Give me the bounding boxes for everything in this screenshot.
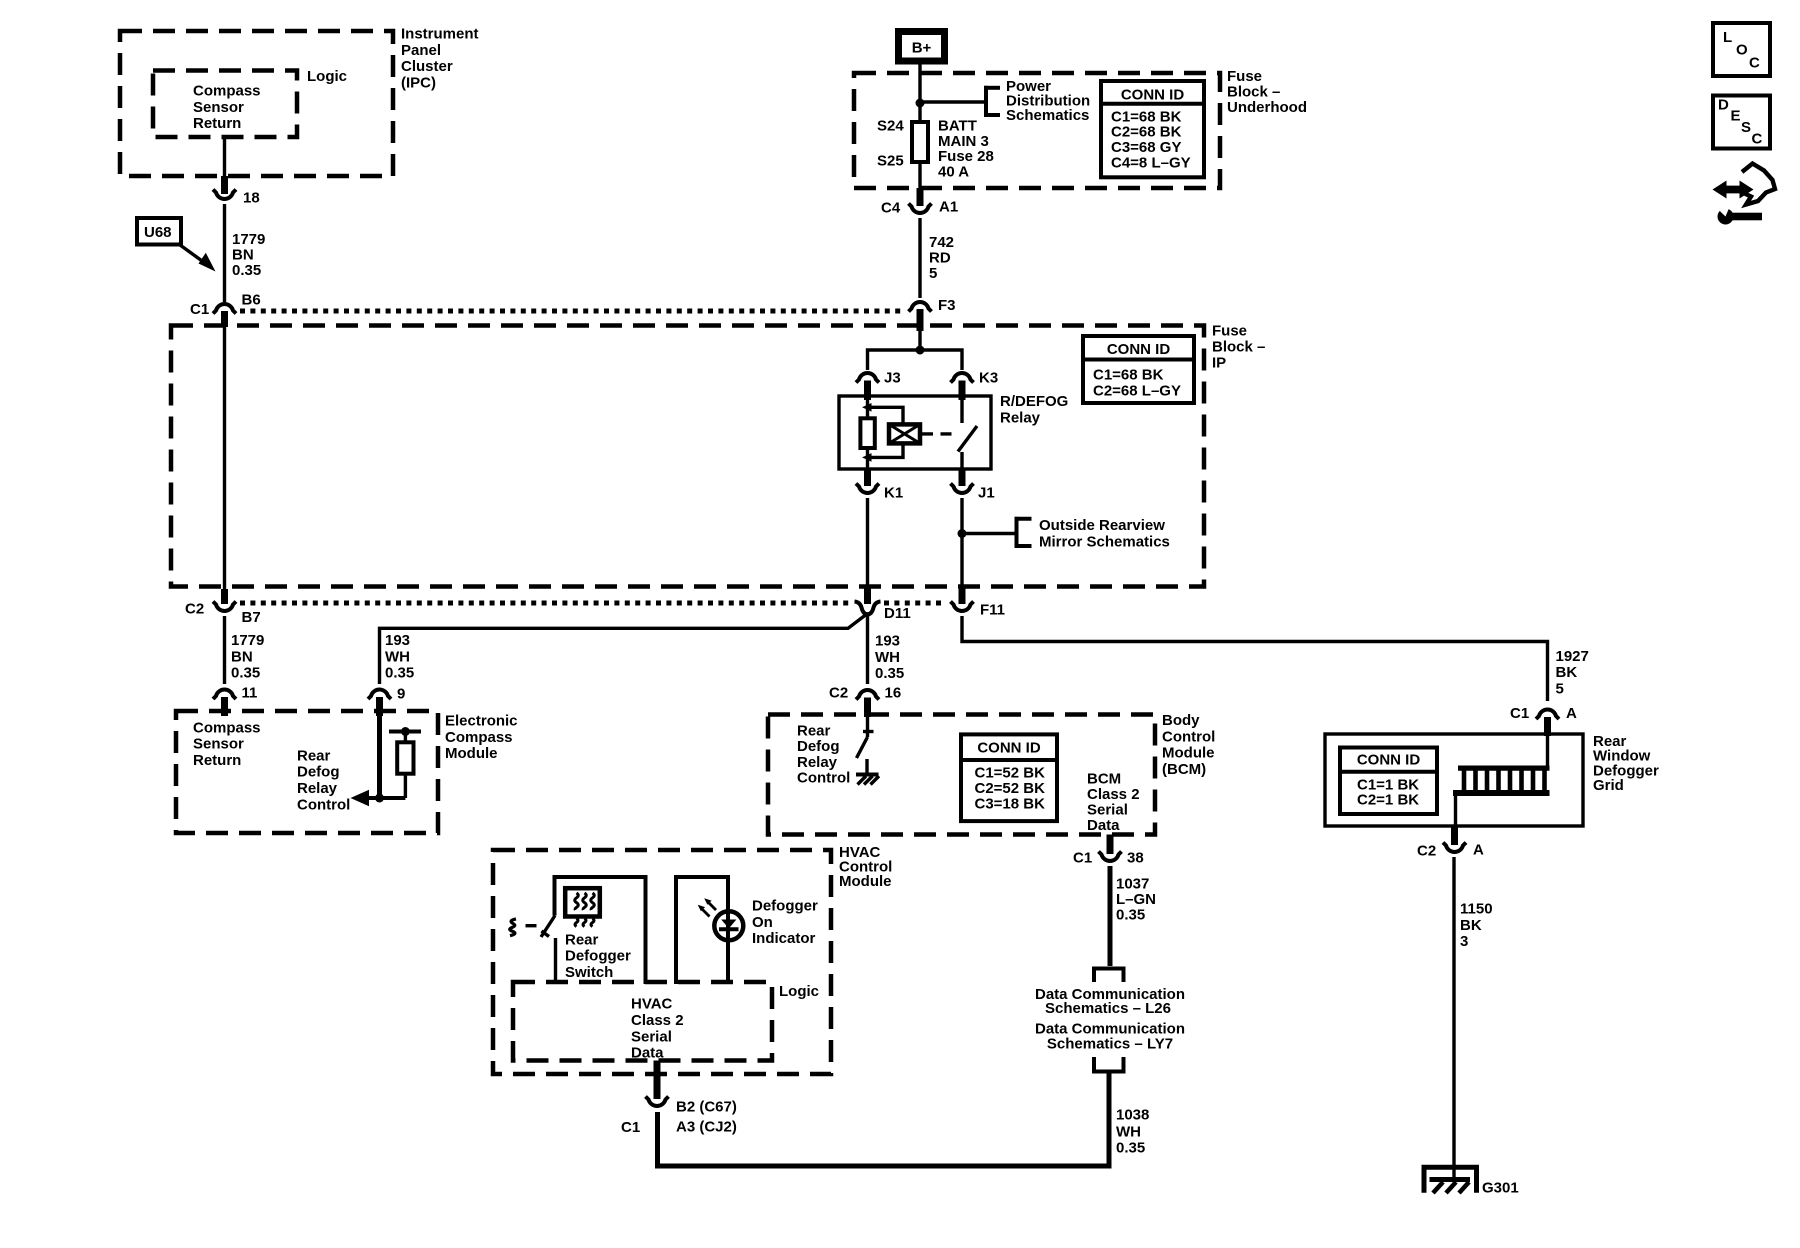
connector C2 A (grid) <box>1443 843 1466 853</box>
svg-text:F3: F3 <box>938 297 956 314</box>
svg-text:0.35: 0.35 <box>232 262 261 279</box>
wire 742 RD 5 <box>918 218 921 298</box>
svg-text:0.35: 0.35 <box>231 665 260 682</box>
svg-text:Schematics – LY7: Schematics – LY7 <box>1047 1035 1173 1052</box>
svg-text:Compass: Compass <box>193 719 261 736</box>
svg-text:0.35: 0.35 <box>385 665 414 682</box>
svg-text:Schematics – L26: Schematics – L26 <box>1045 1000 1171 1017</box>
off-page bracket power distribution <box>984 86 1000 117</box>
svg-text:Class 2: Class 2 <box>1087 786 1140 803</box>
connector C1 A (grid) <box>1536 709 1559 719</box>
svg-text:C1=68 BK: C1=68 BK <box>1093 366 1164 383</box>
stub above C2 B7 <box>221 589 228 604</box>
wire 1150 BK 3 to ground <box>1452 857 1455 1177</box>
wire label 193 WH 0.35 left <box>385 632 414 682</box>
hvac logic box <box>513 982 772 1061</box>
svg-text:Grid: Grid <box>1593 777 1624 794</box>
connector C2 B7 <box>213 602 236 612</box>
svg-text:Control: Control <box>1162 728 1215 745</box>
connector K1 <box>856 484 879 494</box>
switch spring symbol <box>510 919 516 936</box>
label C2 (BCM) <box>829 685 848 702</box>
BCM switch contact tick <box>863 730 874 733</box>
relay coil lower branch wire <box>868 443 904 457</box>
svg-text:BN: BN <box>231 648 253 665</box>
wire label 1927 BK 5 <box>1556 648 1589 698</box>
svg-text:C2=68 L–GY: C2=68 L–GY <box>1093 383 1181 400</box>
connector C1 B6 <box>213 304 236 314</box>
pin label B6 <box>242 292 261 309</box>
wire pin 9 into module <box>377 716 382 798</box>
BCM switch wire <box>866 717 869 737</box>
stub below relay K1 <box>864 469 871 486</box>
pin label J3 <box>884 370 901 387</box>
wire label 1037 L-GN 0.35 <box>1116 876 1156 924</box>
svg-text:Relay: Relay <box>297 780 338 797</box>
svg-text:K1: K1 <box>884 485 903 502</box>
junction to mirror ref <box>958 529 1016 538</box>
svg-text:Panel: Panel <box>401 42 441 59</box>
conn id table BCM <box>961 734 1057 821</box>
label Fuse Block Underhood <box>1227 68 1307 116</box>
svg-text:C1: C1 <box>1073 850 1092 867</box>
svg-text:Class 2: Class 2 <box>631 1012 684 1029</box>
wire label 1150 BK 3 <box>1460 901 1493 951</box>
connector F3 <box>909 302 932 312</box>
svg-text:D11: D11 <box>884 605 911 622</box>
svg-text:Rear: Rear <box>565 931 599 948</box>
svg-text:Return: Return <box>193 752 241 769</box>
svg-text:C: C <box>1749 55 1760 72</box>
connector D11 <box>855 602 881 615</box>
instrument panel cluster IPC box <box>120 31 393 176</box>
LED light arrows <box>698 898 716 916</box>
indicator loop wire <box>676 877 728 984</box>
wire label 193 WH 0.35 right <box>875 633 904 683</box>
pin label 16 <box>885 685 902 702</box>
stub below C1 A <box>1544 717 1551 736</box>
splice label S25 <box>877 153 904 170</box>
icon DESC <box>1713 96 1770 149</box>
label HVAC Control Module <box>839 844 892 890</box>
svg-text:Module: Module <box>839 873 892 890</box>
junction arrow bottom <box>862 453 872 462</box>
wire label 1038 WH 0.35 <box>1116 1107 1149 1157</box>
svg-text:C2=1 BK: C2=1 BK <box>1357 792 1419 809</box>
rear window defogger grid box <box>1325 734 1583 826</box>
connector C4 A1 <box>909 204 932 214</box>
off-page bracket data communication bottom <box>1094 1057 1124 1072</box>
wire K1 to D11 <box>866 498 869 588</box>
stub below pin 11 <box>221 697 228 716</box>
svg-text:0.35: 0.35 <box>1116 906 1145 923</box>
IPC label <box>401 26 479 92</box>
svg-text:Underhood: Underhood <box>1227 99 1307 116</box>
body control module BCM box <box>768 715 1155 835</box>
label Logic (HVAC) <box>779 983 819 1000</box>
internal supply T-bar <box>389 727 421 736</box>
connector pin 11 <box>213 689 236 699</box>
label C4 <box>881 200 901 217</box>
pin label A (grid bottom) <box>1473 842 1484 859</box>
svg-text:40 A: 40 A <box>938 163 969 180</box>
dotted harness line upper <box>240 309 902 314</box>
svg-text:Defogger: Defogger <box>752 898 818 915</box>
label Compass Sensor Return (IPC) <box>193 83 261 133</box>
connector K3 <box>951 373 974 383</box>
label Fuse Block IP <box>1212 323 1265 372</box>
hvac switch blade <box>541 916 555 938</box>
connector F11 <box>951 602 974 612</box>
off-page bracket data communication top <box>1094 969 1124 983</box>
stub below J3 <box>864 381 871 401</box>
fuse block underhood box <box>854 73 1220 188</box>
label Outside Rearview Mirror Schematics <box>1039 517 1170 550</box>
svg-text:Relay: Relay <box>1000 409 1041 426</box>
svg-text:HVAC: HVAC <box>631 996 673 1013</box>
label Defogger On Indicator <box>752 898 818 948</box>
svg-text:Logic: Logic <box>779 983 819 1000</box>
stub below F3 <box>917 309 924 331</box>
svg-text:C4=8 L–GY: C4=8 L–GY <box>1111 155 1191 172</box>
svg-text:C: C <box>1752 131 1763 148</box>
pin label 11 <box>242 685 258 702</box>
grid element lead to C2 <box>1454 793 1457 826</box>
svg-text:RD: RD <box>929 250 951 267</box>
connector hvac C1 <box>646 1097 669 1107</box>
svg-text:WH: WH <box>385 648 410 665</box>
wire D11 to C2 16 <box>866 615 869 684</box>
dotted harness line lower left part <box>240 601 852 606</box>
svg-text:Body: Body <box>1162 712 1200 729</box>
svg-text:Rear: Rear <box>297 747 331 764</box>
pin label 38 <box>1127 850 1144 867</box>
label Rear Defog Relay Control (BCM) <box>797 723 850 787</box>
electronic compass module box <box>176 711 438 833</box>
node split to relay pins <box>916 346 925 355</box>
svg-text:Logic: Logic <box>307 68 347 85</box>
label C2 (grid) <box>1417 843 1436 860</box>
svg-text:Mirror Schematics: Mirror Schematics <box>1039 533 1170 550</box>
stub below K3 <box>959 381 966 401</box>
svg-text:Serial: Serial <box>631 1028 672 1045</box>
relay coil winding <box>889 424 920 443</box>
svg-text:Relay: Relay <box>797 754 838 771</box>
svg-text:742: 742 <box>929 234 954 251</box>
svg-text:A: A <box>1473 842 1484 859</box>
svg-text:(IPC): (IPC) <box>401 74 436 91</box>
svg-text:Compass: Compass <box>445 729 513 746</box>
label R/DEFOG Relay <box>1000 393 1068 426</box>
stub above D11 <box>864 586 871 604</box>
BCM switch blade <box>857 737 868 758</box>
relay R/DEFOG box <box>839 396 991 469</box>
svg-text:Module: Module <box>1162 745 1215 762</box>
connector J3 <box>856 373 879 383</box>
wire 1038 WH 0.35 <box>658 1072 1110 1167</box>
svg-text:193: 193 <box>875 633 900 650</box>
svg-text:S24: S24 <box>877 118 904 135</box>
connector pin 18 <box>213 190 236 200</box>
svg-text:Defogger: Defogger <box>565 948 631 965</box>
wire J1 down <box>960 498 963 588</box>
label C1 (BCM) <box>1073 850 1092 867</box>
BCM switch lower contact <box>865 759 868 773</box>
wire 1779 BN lower <box>223 616 226 684</box>
wire B+ to fuse <box>918 65 921 121</box>
label C2 <box>185 601 204 618</box>
svg-text:Data: Data <box>631 1045 664 1062</box>
svg-text:C2=68 BK: C2=68 BK <box>1111 124 1182 141</box>
conn id table fuse block underhood <box>1101 81 1204 177</box>
relay switch lower contact <box>960 452 963 469</box>
svg-text:C1: C1 <box>621 1119 640 1136</box>
svg-text:BCM: BCM <box>1087 771 1121 788</box>
svg-text:1779: 1779 <box>232 231 265 248</box>
svg-text:193: 193 <box>385 632 410 649</box>
label Rear Window Defogger Grid <box>1593 733 1659 794</box>
svg-text:WH: WH <box>1116 1123 1141 1140</box>
conn id table grid <box>1340 748 1437 815</box>
svg-text:R/DEFOG: R/DEFOG <box>1000 393 1068 410</box>
svg-text:0.35: 0.35 <box>1116 1140 1145 1157</box>
svg-text:Control: Control <box>797 770 850 787</box>
defogger grid element <box>1453 766 1550 793</box>
LED wire through indicator <box>726 910 730 984</box>
relay switch fixed contact top <box>960 400 963 423</box>
wire D11 branch to compass module <box>380 614 868 685</box>
svg-text:Compass: Compass <box>193 83 261 100</box>
rear defogger switch icon <box>565 888 600 926</box>
svg-text:C2: C2 <box>1417 843 1436 860</box>
junction node S24 area <box>916 99 925 108</box>
svg-text:A1: A1 <box>939 199 958 216</box>
svg-text:L–GN: L–GN <box>1116 891 1156 908</box>
svg-text:1150: 1150 <box>1460 901 1493 918</box>
svg-text:K3: K3 <box>979 370 998 387</box>
stub above C4 A1 <box>917 188 924 206</box>
svg-text:Schematics: Schematics <box>1006 107 1089 124</box>
wire split horizontal <box>868 350 963 370</box>
pin label B7 <box>242 609 261 626</box>
svg-text:CONN ID: CONN ID <box>1357 752 1421 769</box>
icon LOC <box>1713 23 1770 76</box>
svg-text:3: 3 <box>1460 933 1468 950</box>
stub below C2 16 <box>864 698 871 718</box>
connector J1 <box>951 484 974 494</box>
wire label 1779 BN 0.35 upper <box>232 231 265 279</box>
BCM internal ground <box>856 775 879 785</box>
conn id table fuse block IP <box>1083 336 1194 403</box>
wire label 742 RD 5 <box>929 234 954 282</box>
svg-text:Switch: Switch <box>565 964 613 981</box>
relay actuation dashed link <box>922 432 957 435</box>
relay coil branch wire <box>868 400 904 424</box>
wire into grid element <box>1546 736 1549 768</box>
icon navigation arrows and wrench <box>1712 164 1775 225</box>
svg-text:Defog: Defog <box>297 764 340 781</box>
hvac switch lower contact <box>554 938 557 984</box>
svg-text:38: 38 <box>1127 850 1144 867</box>
svg-text:S25: S25 <box>877 153 904 170</box>
fuse block IP box <box>171 326 1204 587</box>
label Electronic Compass Module <box>445 713 518 763</box>
svg-text:CONN ID: CONN ID <box>1121 87 1185 104</box>
stub below relay J1 <box>959 469 966 486</box>
wire junction to power distribution ref <box>920 100 984 103</box>
pin label A1 <box>939 199 958 216</box>
svg-text:Rear: Rear <box>797 723 831 740</box>
svg-text:C2=52 BK: C2=52 BK <box>975 780 1046 797</box>
svg-text:1779: 1779 <box>231 632 264 649</box>
fuse BATT MAIN 3 Fuse 28 40A <box>912 122 928 162</box>
pull-up resistor lead top <box>404 732 407 743</box>
pin label 9 <box>397 686 405 703</box>
svg-text:IP: IP <box>1212 355 1226 372</box>
svg-text:Data: Data <box>1087 817 1120 834</box>
ground G301 <box>1424 1167 1477 1193</box>
svg-text:(BCM): (BCM) <box>1162 761 1206 778</box>
svg-text:B6: B6 <box>242 292 261 309</box>
svg-text:Indicator: Indicator <box>752 930 816 947</box>
pin label A (grid top) <box>1566 705 1577 722</box>
svg-text:Electronic: Electronic <box>445 713 518 730</box>
label G301 <box>1482 1180 1519 1197</box>
label Data Communication Schematics L26 LY7 <box>1035 986 1185 1053</box>
label Rear Defogger Switch <box>565 931 631 981</box>
pin stub at IPC pin 18 <box>221 176 228 194</box>
svg-text:9: 9 <box>397 686 405 703</box>
label Logic <box>307 68 347 85</box>
label Rear Defog Relay Control (module) <box>297 747 350 813</box>
svg-text:Instrument: Instrument <box>401 26 479 43</box>
wire 1037 L-GN 0.35 <box>1108 866 1113 966</box>
svg-text:BN: BN <box>232 247 254 264</box>
svg-text:Cluster: Cluster <box>401 58 453 75</box>
svg-text:BK: BK <box>1460 917 1482 934</box>
svg-text:16: 16 <box>885 685 902 702</box>
label C1 <box>190 301 209 318</box>
svg-text:O: O <box>1736 42 1748 59</box>
defogger on indicator LED <box>714 911 743 940</box>
connector pin 9 <box>368 689 391 699</box>
svg-text:Control: Control <box>297 796 350 813</box>
svg-text:U68: U68 <box>144 224 172 241</box>
stub below hvac logic <box>654 1061 661 1100</box>
svg-text:B7: B7 <box>242 609 261 626</box>
svg-text:Fuse: Fuse <box>1227 68 1262 85</box>
pin label F3 <box>938 297 956 314</box>
junction arrow top <box>862 403 872 412</box>
svg-text:C1: C1 <box>1510 705 1529 722</box>
svg-text:A: A <box>1566 705 1577 722</box>
pin label J1 <box>978 485 995 502</box>
pin label D11 <box>884 605 911 622</box>
connector C2 16 <box>856 690 879 700</box>
pin label 18 <box>243 190 260 207</box>
svg-text:CONN ID: CONN ID <box>1107 341 1171 358</box>
wire F3 into IP box <box>918 331 921 350</box>
label C1 (HVAC) <box>621 1119 640 1136</box>
svg-text:11: 11 <box>242 685 258 702</box>
stub above F11 <box>959 586 966 604</box>
svg-text:C1: C1 <box>190 301 209 318</box>
pin label F11 <box>980 602 1005 619</box>
wire 1927 BK 5 from F11 to grid <box>962 616 1548 701</box>
svg-text:F11: F11 <box>980 602 1005 619</box>
label BATT MAIN 3 Fuse 28 40 A <box>938 118 994 181</box>
compass sensor return logic box <box>153 71 297 138</box>
svg-text:C2: C2 <box>185 601 204 618</box>
svg-text:B+: B+ <box>912 40 932 57</box>
label HVAC Class 2 Serial Data <box>631 996 684 1062</box>
connector C1 38 <box>1099 852 1122 862</box>
svg-text:D: D <box>1718 97 1729 114</box>
label Body Control Module (BCM) <box>1162 712 1215 778</box>
svg-text:L: L <box>1723 29 1732 46</box>
off-page bracket outside rearview mirror <box>1015 517 1032 548</box>
svg-text:18: 18 <box>243 190 260 207</box>
svg-text:Defog: Defog <box>797 738 840 755</box>
svg-text:G301: G301 <box>1482 1180 1519 1197</box>
svg-text:Sensor: Sensor <box>193 736 244 753</box>
svg-text:B2 (C67): B2 (C67) <box>676 1099 737 1116</box>
svg-text:1038: 1038 <box>1116 1107 1149 1124</box>
svg-text:BK: BK <box>1556 664 1578 681</box>
switch loop wire <box>555 877 646 984</box>
svg-text:Module: Module <box>445 745 498 762</box>
svg-text:S: S <box>1741 119 1751 136</box>
svg-text:5: 5 <box>1556 680 1564 697</box>
svg-text:C1=52 BK: C1=52 BK <box>975 765 1046 782</box>
pin label B2 (C67) A3 (CJ2) <box>676 1099 737 1136</box>
stub below BCM C1 38 <box>1107 835 1114 855</box>
pull-up resistor lead bottom <box>404 774 407 798</box>
stub below B6 <box>221 311 228 327</box>
svg-text:WH: WH <box>875 649 900 666</box>
svg-text:C4: C4 <box>881 200 901 217</box>
svg-text:Block –: Block – <box>1227 84 1280 101</box>
pin label K3 <box>979 370 998 387</box>
label Power Distribution Schematics <box>1006 78 1090 124</box>
label BCM Class 2 Serial Data <box>1087 771 1140 835</box>
svg-text:A3 (CJ2): A3 (CJ2) <box>676 1119 737 1136</box>
svg-text:0.35: 0.35 <box>875 665 904 682</box>
label Compass Sensor Return (module) <box>193 719 261 769</box>
wire label 1779 BN 0.35 lower <box>231 632 264 682</box>
svg-text:Block –: Block – <box>1212 339 1265 356</box>
stub above C2 A <box>1451 826 1458 845</box>
junction dot on control line <box>375 794 384 803</box>
rear defog relay control arrow <box>351 790 406 806</box>
svg-text:Serial: Serial <box>1087 802 1128 819</box>
svg-text:5: 5 <box>929 265 937 282</box>
battery feed B+ symbol <box>899 32 945 62</box>
relay switch blade <box>958 426 977 452</box>
dotted harness line lower right part <box>884 601 946 606</box>
relay resistor <box>860 407 874 469</box>
svg-text:C3=18 BK: C3=18 BK <box>975 796 1046 813</box>
svg-text:J1: J1 <box>978 485 995 502</box>
stub below pin 9 <box>376 697 383 716</box>
pull-up resistor <box>397 742 413 773</box>
splice label S24 <box>877 118 904 135</box>
wire 1779 BN from pin 18 to C1 B6 <box>223 204 226 302</box>
svg-text:E: E <box>1731 108 1741 125</box>
callout box U68 <box>137 218 181 245</box>
svg-text:Return: Return <box>193 115 241 132</box>
wire fuse to box edge <box>918 164 921 188</box>
